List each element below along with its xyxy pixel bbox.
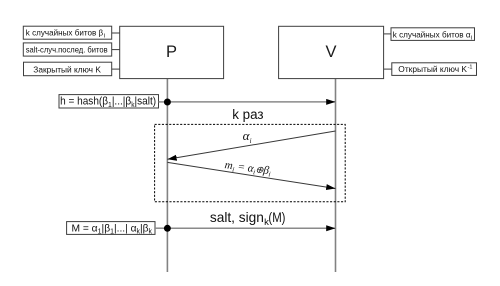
note box: public key K-1 [392, 63, 477, 76]
svg-text:-1: -1 [468, 65, 473, 71]
node on P lifeline (hash message origin) [164, 99, 171, 106]
note box: h = hash(...) [59, 95, 159, 110]
svg-text:V: V [325, 43, 336, 61]
wire note salt to P [112, 49, 120, 51]
wire arrow m from P to V [167, 162, 335, 188]
svg-text:i: i [250, 137, 252, 145]
dashed loop frame [155, 124, 346, 201]
svg-text:(M): (M) [268, 210, 285, 225]
note box: private key K [24, 62, 112, 75]
wire h-note to node [159, 101, 168, 103]
svg-text:Закрытый ключ K: Закрытый ключ K [33, 64, 101, 74]
box P [120, 26, 224, 78]
wire arrow h from P to V [167, 101, 335, 103]
svg-text:k случайных битов α: k случайных битов α [393, 29, 471, 39]
note box: M = a1|b1|...|ak|bk [67, 222, 155, 236]
svg-text:k раз: k раз [232, 107, 263, 122]
svg-text:salt, sign: salt, sign [210, 210, 264, 225]
svg-text:i: i [104, 34, 105, 40]
svg-text:k случайных битов β: k случайных битов β [26, 27, 103, 37]
wire note key to P [112, 68, 120, 70]
wire V to note K-1 [384, 68, 392, 70]
wire note beta to P [112, 32, 120, 34]
svg-text:P: P [166, 43, 177, 61]
node on P lifeline (signature message origin) [164, 225, 171, 232]
svg-text:Открытый ключ K: Открытый ключ K [398, 64, 467, 74]
note box: k random bits beta_i [23, 26, 111, 39]
wire M-note to node [155, 227, 167, 229]
box V [279, 26, 384, 78]
note box: salt [23, 43, 111, 56]
svg-text:i: i [471, 35, 472, 41]
lifeline P [166, 79, 168, 272]
note box: k random bits alpha_i [391, 28, 475, 42]
lifeline V [335, 79, 337, 272]
wire arrow alpha from V to P [167, 131, 335, 159]
wire V to note alpha [384, 33, 392, 35]
wire arrow salt/sign from P to V [167, 227, 335, 229]
svg-text:salt-случ.послед. битов: salt-случ.послед. битов [26, 45, 108, 55]
